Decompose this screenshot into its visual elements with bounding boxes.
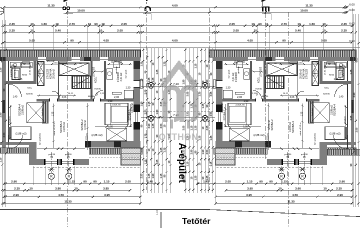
svg-text:3.05: 3.05	[183, 125, 186, 130]
svg-text:2.35: 2.35	[9, 29, 15, 33]
svg-text:1.90: 1.90	[152, 173, 155, 178]
svg-text:10: 10	[254, 29, 258, 33]
svg-text:1.35: 1.35	[194, 175, 197, 180]
staircase (vertical treads)	[72, 76, 91, 89]
svg-text:13,97 m2: 13,97 m2	[289, 121, 292, 132]
dash-dot axis line x=287.2	[286, 152, 288, 186]
svg-text:1,90: 1,90	[108, 100, 113, 103]
svg-text:greslap: greslap	[237, 66, 240, 74]
top dimension row 1 (11.35 / 11.35 overall)	[3, 3, 348, 8]
svg-text:2.35: 2.35	[341, 29, 347, 33]
top dimension row 5 right building	[215, 38, 354, 43]
svg-text:2.35: 2.35	[336, 186, 342, 190]
interior dim line in 15m2 room	[37, 94, 76, 96]
svg-text:1.15: 1.15	[281, 180, 287, 184]
svg-text:2,06: 2,06	[114, 95, 120, 99]
middle-left dimension chain 7	[164, 48, 168, 193]
door arc top (from left wall)	[9, 84, 22, 97]
svg-text:1.15: 1.15	[148, 101, 151, 106]
svg-text:3.05: 3.05	[144, 89, 147, 94]
svg-text:1.90: 1.90	[183, 79, 186, 84]
svg-text:11.35: 11.35	[64, 200, 72, 204]
svg-text:2.05: 2.05	[125, 180, 131, 184]
svg-text:10,98 m2: 10,98 m2	[22, 104, 25, 115]
svg-text:1.15: 1.15	[144, 159, 147, 164]
svg-text:1.15: 1.15	[191, 125, 194, 130]
interior partition: top-left room bottom wall	[5, 81, 37, 84]
svg-text:greslap 60x60: greslap 60x60	[14, 65, 17, 79]
bottom wall right segment	[85, 141, 140, 147]
wardrobe X-box szoba-4	[27, 103, 45, 123]
svg-text:greslap: greslap	[115, 66, 118, 74]
svg-text:2.90: 2.90	[337, 193, 343, 197]
svg-text:4,31 m2: 4,31 m2	[232, 72, 235, 81]
svg-text:1,30: 1,30	[243, 127, 248, 129]
bottom dimension row 1 left	[3, 180, 159, 185]
section mark near title	[160, 212, 162, 228]
svg-text:3,06: 3,06	[290, 97, 295, 99]
svg-text:6.00: 6.00	[356, 57, 359, 62]
svg-text:1.60: 1.60	[41, 22, 47, 26]
top dimension row 4 left building	[3, 29, 142, 34]
svg-text:1.35: 1.35	[148, 173, 151, 178]
svg-text:3.60: 3.60	[295, 186, 301, 190]
svg-text:6.00: 6.00	[349, 8, 355, 12]
svg-text:2,53 m: 2,53 m	[87, 133, 89, 140]
svg-text:OTTHON: OTTHON	[159, 132, 199, 142]
window axis X mark at (302.5,169.3)	[299, 167, 305, 171]
svg-text:1.35: 1.35	[156, 69, 159, 74]
svg-text:3.05: 3.05	[206, 125, 209, 130]
right edge dimension chain 1	[350, 14, 354, 207]
svg-text:60/190: 60/190	[262, 96, 269, 98]
window axis circle marker at (51.3,176.2)	[48, 173, 54, 179]
svg-text:LÉPCSŐ: LÉPCSŐ	[93, 67, 96, 77]
door lintel marks on central wall	[49, 99, 50, 102]
svg-text:1.25: 1.25	[164, 61, 167, 66]
wardrobe X-box szoba-1	[107, 128, 127, 141]
corridor width dim	[93, 70, 103, 72]
svg-text:13,97 m2: 13,97 m2	[63, 121, 66, 132]
svg-text:1.60: 1.60	[309, 22, 315, 26]
svg-text:90: 90	[70, 38, 74, 42]
svg-text:KONYHA: KONYHA	[50, 68, 53, 79]
top dimension row 2 (10.00 / 4.00 / 10.00)	[66, 8, 348, 13]
svg-text:1.45: 1.45	[203, 180, 209, 184]
svg-text:90: 90	[258, 22, 262, 26]
svg-text:1.25: 1.25	[191, 103, 194, 108]
top dimension row 4 right building	[215, 29, 354, 34]
svg-text:1.25: 1.25	[210, 135, 213, 140]
middle-right dimension chain 7	[206, 48, 210, 193]
svg-text:5.05: 5.05	[29, 38, 35, 42]
svg-text:NAPPALI: NAPPALI	[11, 67, 14, 77]
svg-text:1.25: 1.25	[148, 77, 151, 82]
exterior stair cross-hatch block	[121, 148, 141, 165]
svg-text:p=0,90: p=0,90	[48, 154, 56, 156]
svg-text:10: 10	[55, 22, 59, 26]
svg-text:5.05: 5.05	[321, 38, 327, 42]
dash-dot axis line x=51.3	[50, 152, 52, 186]
svg-text:LÉPCSŐ: LÉPCSŐ	[260, 67, 263, 77]
dash-dot axis line x=288.5	[288, 12, 290, 227]
svg-text:3.05: 3.05	[210, 91, 213, 96]
svg-text:1.35: 1.35	[194, 125, 197, 130]
svg-text:11.35: 11.35	[287, 200, 295, 204]
axis bubble at (151,118.3)	[148, 115, 154, 121]
svg-text:2.35: 2.35	[9, 22, 15, 26]
interior partition: central horizontal wall	[37, 99, 134, 102]
middle-right dimension chain 1	[183, 48, 187, 193]
svg-text:2.35: 2.35	[14, 186, 20, 190]
svg-text:10: 10	[74, 186, 78, 190]
left edge dimension chain 1	[0, 20, 3, 207]
svg-text:Tetőtér: Tetőtér	[182, 216, 211, 226]
svg-text:1.35: 1.35	[140, 61, 143, 66]
svg-text:1.35: 1.35	[202, 103, 205, 108]
middle-left dimension chain 1	[140, 48, 144, 193]
svg-text:burkolat: burkolat	[41, 108, 44, 116]
room labels left building	[9, 59, 134, 159]
svg-text:2.05: 2.05	[229, 22, 235, 26]
window axis X mark at (281.5,169.3)	[278, 167, 284, 171]
svg-text:1.15: 1.15	[247, 180, 253, 184]
svg-text:1.90: 1.90	[140, 101, 143, 106]
benchmark symbol top left (x=67)	[63, 0, 74, 13]
svg-text:1.40: 1.40	[147, 180, 153, 184]
svg-text:5.40: 5.40	[55, 29, 61, 33]
bottom dimension row 3 right	[215, 193, 354, 198]
svg-text:10: 10	[297, 22, 301, 26]
svg-text:1,30: 1,30	[108, 127, 113, 129]
kitchen counter row under top wall	[10, 62, 32, 68]
corridor door arcs	[52, 91, 103, 100]
interior partition: stair left wall	[57, 61, 59, 99]
svg-text:15 m2: 15 m2	[302, 59, 310, 63]
svg-text:1,30: 1,30	[126, 86, 131, 89]
svg-text:1.35: 1.35	[198, 91, 201, 96]
svg-text:10: 10	[322, 22, 326, 26]
left building exterior wall: right side	[134, 61, 143, 141]
bottom dimension row 3 left	[3, 193, 142, 198]
svg-text:2,35: 2,35	[18, 79, 23, 81]
svg-text:60/190: 60/190	[88, 96, 95, 98]
top wall window sash marks	[38, 57, 108, 61]
svg-text:90: 90	[83, 180, 87, 184]
svg-text:lam.park: lam.park	[125, 69, 128, 78]
top dimension row 5 middle	[139, 38, 217, 43]
svg-text:10,82 m2: 10,82 m2	[85, 119, 87, 129]
svg-text:3,06: 3,06	[62, 97, 67, 99]
middle-right dimension chain 5	[198, 48, 202, 193]
interior dim chain at right wall window	[130, 104, 132, 127]
window axis circle marker at (302.5,176.2)	[299, 173, 305, 179]
middle-left dimension chain 8	[168, 48, 172, 193]
svg-text:elarkett: elarkett	[343, 116, 346, 123]
svg-text:p=0,90: p=0,90	[65, 154, 73, 156]
svg-text:1,40: 1,40	[13, 97, 18, 99]
dashed roof overhang line below bay	[33, 167, 141, 169]
svg-text:2.90: 2.90	[11, 180, 17, 184]
svg-text:2.53: 2.53	[187, 111, 190, 116]
svg-text:(1,88 m2): (1,88 m2)	[325, 62, 336, 66]
eaves / boundary line across sheet	[0, 47, 360, 49]
svg-text:10: 10	[278, 186, 282, 190]
svg-text:14,11: 14,11	[68, 93, 74, 95]
bed furniture	[105, 103, 128, 125]
svg-text:1.15: 1.15	[194, 63, 197, 68]
small store room bottom-left	[9, 127, 31, 140]
right building top wall hatched band	[209, 50, 356, 61]
svg-text:2.90: 2.90	[339, 180, 345, 184]
wardrobe X-box in 15m2 room (two stacked X)	[38, 62, 45, 86]
svg-text:90: 90	[93, 180, 97, 184]
middle-right dimension chain 8	[210, 48, 214, 193]
svg-text:10: 10	[251, 22, 255, 26]
svg-text:2.90: 2.90	[13, 193, 19, 197]
svg-text:1.10: 1.10	[156, 210, 159, 215]
svg-text:burkolat: burkolat	[311, 108, 314, 116]
terrace parapet hatch bottom-left	[0, 148, 31, 154]
middle-left dimension chain 4	[152, 48, 156, 193]
svg-text:(2,88 m2): (2,88 m2)	[91, 133, 102, 137]
svg-text:3.95: 3.95	[246, 193, 252, 197]
left building bottom wall: left room segment	[0, 142, 31, 145]
dim marks under top wall right	[107, 63, 132, 65]
right terrace hatch extension to sheet edge	[327, 149, 360, 155]
svg-text:90: 90	[259, 180, 263, 184]
interior dim chain at corridor	[86, 103, 88, 150]
svg-text:14,11: 14,11	[283, 93, 289, 95]
svg-text:75/190: 75/190	[255, 89, 262, 91]
top dimension row 3 middle	[137, 25, 219, 27]
svg-text:2.70: 2.70	[281, 22, 287, 26]
svg-text:90/60: 90/60	[22, 75, 28, 77]
svg-text:SZOBA-2: SZOBA-2	[80, 119, 84, 131]
svg-text:1,40: 1,40	[339, 97, 344, 99]
svg-text:3.05: 3.05	[140, 147, 143, 152]
bottom dimension row 4 right	[215, 200, 354, 205]
window axis circle marker at (68.8,176.2)	[66, 173, 72, 179]
svg-text:A-épület: A-épület	[176, 143, 187, 184]
svg-text:GARD: GARD	[38, 69, 41, 76]
svg-text:10: 10	[29, 186, 33, 190]
svg-text:lam.parketta: lam.parketta	[39, 132, 42, 145]
svg-text:p=0,90: p=0,90	[301, 154, 309, 156]
svg-text:ETKEZŐ: ETKEZŐ	[306, 69, 309, 79]
svg-text:1.25: 1.25	[160, 147, 163, 152]
svg-text:2.35: 2.35	[341, 22, 347, 26]
svg-text:2.90: 2.90	[191, 149, 194, 154]
svg-text:4,31 m2: 4,31 m2	[120, 72, 123, 81]
svg-text:2.90: 2.90	[0, 112, 2, 117]
svg-text:2.05: 2.05	[233, 29, 239, 33]
middle gap dim line lower	[141, 113, 215, 119]
svg-text:SZOBA-2: SZOBA-2	[270, 119, 274, 131]
top dimension row 4 middle	[137, 31, 219, 33]
svg-text:1.25: 1.25	[353, 147, 356, 152]
terrace parapet hatch bottom-right of unit	[89, 148, 142, 154]
dashed line below right terrace	[89, 156, 142, 158]
svg-text:4.05: 4.05	[247, 38, 253, 42]
room labels right building	[222, 59, 346, 159]
axis bubble at (205,85.3)	[202, 82, 208, 88]
svg-text:szint +2,53 m: szint +2,53 m	[299, 122, 302, 135]
svg-text:2.90: 2.90	[148, 123, 151, 128]
window axis circle marker at (281.5,176.2)	[278, 173, 284, 179]
svg-text:p=0,90: p=0,90	[284, 154, 292, 156]
window axis X mark at (68.8,169.3)	[66, 167, 72, 171]
svg-text:2.05: 2.05	[117, 29, 123, 33]
svg-text:4.05: 4.05	[103, 38, 109, 42]
svg-text:1.15: 1.15	[210, 161, 213, 166]
svg-text:4.50: 4.50	[58, 193, 64, 197]
bath fixtures	[107, 62, 134, 99]
svg-text:2.53: 2.53	[3, 132, 6, 137]
dash-dot axis line x=68.8	[68, 152, 70, 186]
interior partition: top-left room right wall	[33, 61, 36, 84]
window axis X mark at (51.3,169.3)	[48, 167, 54, 171]
svg-text:SZOBA-1: SZOBA-1	[128, 109, 132, 121]
watermark logo: right glyph	[182, 88, 196, 123]
svg-text:4.00: 4.00	[172, 38, 178, 42]
svg-text:10: 10	[30, 22, 34, 26]
svg-text:2,35: 2,35	[334, 79, 339, 81]
svg-text:1.35: 1.35	[152, 123, 155, 128]
dash-dot axis line x=146.5	[146, 8, 148, 190]
svg-text:10: 10	[99, 29, 103, 33]
svg-text:(1,88 m2): (1,88 m2)	[15, 132, 26, 136]
svg-text:6.00: 6.00	[349, 22, 355, 26]
svg-text:90: 90	[94, 22, 98, 26]
bottom wall step segment	[29, 142, 37, 165]
svg-text:10: 10	[101, 22, 105, 26]
svg-text:82/190: 82/190	[26, 94, 33, 96]
svg-text:1,35: 1,35	[53, 111, 55, 116]
svg-text:29,96 m2: 29,96 m2	[54, 68, 56, 78]
bottom dimension row 2 left	[3, 186, 131, 191]
svg-text:1.15: 1.15	[160, 173, 163, 178]
interior partition: stair right wall	[91, 61, 93, 99]
svg-text:5.40: 5.40	[295, 29, 301, 33]
svg-text:2.05: 2.05	[121, 22, 127, 26]
svg-text:2.05: 2.05	[225, 180, 231, 184]
middle-right dimension chain 4	[194, 48, 198, 193]
dim marks under top wall	[37, 63, 77, 65]
svg-text:11.35: 11.35	[47, 3, 55, 7]
svg-text:KONYHA: KONYHA	[303, 68, 306, 79]
svg-text:(1,88 m2): (1,88 m2)	[329, 132, 340, 136]
bottom boundary line with corner diagonal	[0, 209, 360, 216]
svg-text:1.15: 1.15	[104, 180, 110, 184]
svg-text:1.15: 1.15	[69, 180, 75, 184]
svg-text:29,96 m2: 29,96 m2	[301, 68, 303, 78]
svg-text:1,35: 1,35	[302, 111, 304, 116]
svg-text:2,06: 2,06	[237, 95, 243, 99]
interior dim chain in szoba-3	[52, 104, 54, 149]
svg-text:2.53: 2.53	[206, 149, 209, 154]
svg-text:6.00: 6.00	[349, 2, 355, 6]
middle-left dimension chain 5	[156, 48, 160, 193]
svg-text:4.00: 4.00	[172, 3, 178, 7]
svg-text:1,30: 1,30	[226, 86, 231, 89]
svg-text:2.53: 2.53	[210, 111, 213, 116]
middle gap dim line upper	[141, 82, 215, 88]
svg-text:lam.park: lam.park	[228, 69, 231, 78]
svg-text:2.53: 2.53	[140, 173, 143, 178]
bottom dimension row 4 left	[3, 200, 142, 205]
watermark logo: left glyph	[165, 88, 179, 123]
svg-text:75/190: 75/190	[94, 89, 101, 91]
left edge dimension chain 2	[3, 20, 7, 207]
svg-text:szint +2,53 m: szint +2,53 m	[53, 122, 56, 135]
svg-text:90: 90	[282, 38, 286, 42]
guide verticals from building corners to bottom rows	[32, 166, 34, 185]
door arc bottom (from left wall)	[9, 135, 23, 149]
svg-text:3.80: 3.80	[55, 186, 61, 190]
svg-text:90/60: 90/60	[329, 75, 335, 77]
row end marks right	[343, 6, 349, 14]
top dimension row 3 left building	[3, 22, 142, 27]
svg-text:3.85: 3.85	[103, 186, 109, 190]
svg-text:3.95: 3.95	[247, 186, 253, 190]
middle-left dimension chain 6	[160, 48, 164, 193]
middle-right dimension chain 3	[191, 48, 195, 193]
svg-text:3.05: 3.05	[187, 91, 190, 96]
svg-text:2,05/1,90: 2,05/1,90	[235, 105, 245, 107]
bottom dimension row 1 right	[197, 180, 353, 185]
svg-text:1.35: 1.35	[164, 147, 167, 152]
svg-text:10: 10	[265, 22, 269, 26]
interior dim chain under bay windows	[37, 148, 85, 150]
svg-text:10.00: 10.00	[300, 8, 308, 12]
dash-dot axis line x=304.7	[304, 152, 306, 186]
svg-text:10: 10	[323, 186, 327, 190]
top dimension row 3 right building	[215, 22, 354, 27]
svg-text:GARD: GARD	[314, 69, 317, 76]
svg-text:1,90: 1,90	[244, 100, 249, 103]
svg-text:(7,01 m2): (7,01 m2)	[30, 65, 32, 75]
svg-text:VS: VS	[97, 92, 99, 96]
middle-right dimension chain 6	[202, 48, 206, 193]
svg-text:90: 90	[269, 180, 273, 184]
svg-text:14,07 m2: 14,07 m2	[222, 102, 224, 112]
right edge dimension chain 3	[356, 14, 360, 207]
svg-text:1.90: 1.90	[202, 149, 205, 154]
bay bottom wall with two windows	[33, 159, 89, 165]
guide verticals top	[3, 8, 5, 50]
svg-text:VS: VS	[257, 92, 259, 96]
watermark logo: roof chevron	[159, 65, 199, 143]
svg-text:3.05: 3.05	[156, 159, 159, 164]
svg-text:1.15: 1.15	[0, 157, 2, 162]
svg-text:11.35: 11.35	[305, 3, 313, 7]
svg-text:3.95: 3.95	[104, 193, 110, 197]
svg-text:14,07 m2: 14,07 m2	[132, 102, 134, 112]
svg-text:elarkett: elarkett	[9, 116, 12, 123]
svg-text:2.05: 2.05	[356, 127, 359, 132]
svg-text:greslap 60x60: greslap 60x60	[339, 65, 342, 79]
dash-dot axis line x=265.8	[265, 13, 267, 160]
benchmark m-symbol top right (x=265.8)	[261, 0, 271, 20]
interior partition: closet wall (hatched)	[42, 101, 48, 123]
left building exterior wall: left side	[2, 57, 9, 152]
interior dim chain along left wall	[9, 105, 11, 140]
top dimension row 5 left building	[3, 38, 142, 43]
axis horseshoe symbol top middle (x=146.5)	[143, 1, 151, 21]
svg-text:NAPPALI: NAPPALI	[342, 67, 345, 77]
middle-left dimension chain 2	[144, 48, 148, 193]
